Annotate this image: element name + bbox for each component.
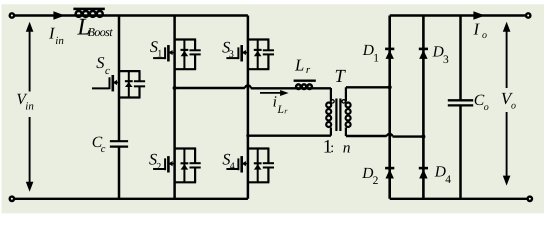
wire secondary bottom to rectifier [346, 135, 387, 137]
wire top rail (primary) [12, 14, 248, 16]
svg-text:D: D [432, 44, 444, 61]
input current arrow Iin [53, 11, 65, 20]
diode D4 [419, 167, 428, 170]
S1 cell bottom wire [175, 68, 197, 70]
S3 gate bar [237, 47, 239, 59]
S4 source-body arrow [242, 163, 248, 165]
svg-text:D: D [361, 165, 373, 182]
Vo up arrow [506, 31, 508, 88]
svg-text:c: c [101, 144, 106, 155]
S3 parallel capacitor [267, 40, 269, 51]
wire Sc/Cc branch vertical [118, 16, 121, 142]
wire rectifier branch A [388, 16, 391, 199]
Sc parallel capacitor [138, 71, 140, 81]
node rectifier branch B mid junction [421, 135, 425, 139]
wire bridge leg A [173, 16, 176, 199]
svg-text:in: in [25, 100, 34, 112]
current arrow iLr [260, 92, 281, 94]
S4 cell top wire [248, 147, 270, 149]
transformer T secondary winding [346, 103, 351, 108]
svg-text:1: 1 [373, 53, 379, 65]
S4 gate lead [226, 168, 238, 170]
Vin down arrow [29, 117, 31, 183]
transformer T primary lead [330, 88, 332, 102]
wire bottom rail (secondary) [390, 198, 530, 200]
transformer T primary winding [326, 103, 331, 108]
input terminal bottom-left [10, 197, 14, 201]
S2 gate lead [153, 168, 165, 170]
node leg B crossing bump [245, 85, 251, 88]
svg-text:i: i [273, 93, 277, 110]
svg-text:4: 4 [230, 161, 235, 172]
transformer T core [335, 99, 337, 132]
node leg B mid junction [246, 134, 249, 137]
S2 parallel capacitor [194, 149, 196, 164]
S3 cell top wire [248, 38, 270, 40]
node leg A mid junction [173, 86, 177, 90]
wire leg B mid to primary bottom [248, 134, 331, 136]
S3 channel [240, 45, 243, 61]
Sc cell bottom wire [119, 96, 141, 98]
S3 cell bottom wire [248, 68, 270, 70]
S4 parallel capacitor [267, 149, 269, 164]
wire bridge mid A to Lr [175, 87, 245, 89]
Sc source-body arrow [113, 82, 119, 84]
svg-text:L: L [294, 55, 304, 74]
svg-text:T: T [335, 67, 347, 87]
svg-text:o: o [511, 100, 516, 111]
diode D2 [385, 167, 394, 170]
svg-text:2: 2 [156, 162, 161, 173]
wire top rail (secondary) [390, 14, 529, 16]
S1 cell top wire [175, 38, 197, 40]
Vo down arrow [506, 112, 508, 176]
svg-text:o: o [482, 30, 487, 41]
svg-text::: : [330, 141, 334, 156]
output terminal bottom-right [528, 197, 532, 201]
S1 gate bar [164, 47, 166, 59]
S4 channel [240, 156, 243, 172]
S3 body diode [257, 40, 259, 70]
Sc body diode [128, 71, 130, 97]
diode D3 [419, 48, 428, 51]
inductor LBoost core bar [73, 8, 104, 11]
Sc gate bar [109, 77, 111, 89]
svg-text:Boost: Boost [88, 25, 114, 39]
Sc gate lead [92, 87, 110, 89]
svg-text:D: D [362, 42, 374, 59]
node secondary bottom crossing bump [387, 134, 393, 137]
Sc channel [112, 75, 115, 91]
S2 source-body arrow [168, 163, 174, 165]
S2 gate bar [164, 158, 166, 170]
S1 gate lead [153, 57, 165, 59]
Sc cell top wire [119, 70, 141, 72]
wire bottom rail (primary) [12, 198, 248, 200]
diode D1 [385, 48, 394, 51]
svg-text:2: 2 [373, 175, 379, 187]
svg-text:n: n [343, 140, 351, 157]
S2 cell bottom wire [175, 181, 197, 183]
S2 cell top wire [175, 147, 197, 149]
S2 channel [167, 156, 170, 172]
wire secondary top to rectifier [346, 86, 390, 88]
svg-text:3: 3 [443, 54, 449, 66]
S3 gate lead [226, 57, 238, 59]
svg-text:S: S [96, 53, 104, 72]
input terminal top-left [10, 13, 14, 17]
capacitor Co leads [459, 16, 462, 101]
svg-text:in: in [55, 35, 64, 47]
capacitor Co [448, 99, 473, 101]
transformer T secondary leads [345, 87, 347, 101]
svg-text:L: L [277, 104, 284, 116]
S3 source-body arrow [242, 52, 248, 54]
Vin up arrow [29, 31, 31, 92]
svg-text:D: D [434, 163, 446, 180]
inductor Lr humps [296, 84, 301, 89]
svg-text:r: r [306, 64, 311, 76]
svg-text:4: 4 [445, 174, 451, 186]
transformer T secondary polarity dot [342, 100, 345, 103]
wire rectifier branch B [422, 16, 425, 199]
S1 body diode [183, 40, 185, 70]
output terminal top-right [526, 13, 530, 17]
svg-text:1: 1 [157, 49, 162, 60]
S1 channel [167, 45, 170, 61]
S4 gate bar [237, 158, 239, 170]
S1 parallel capacitor [194, 40, 196, 51]
S4 cell bottom wire [248, 181, 270, 183]
S2 body diode [183, 149, 185, 183]
capacitor Cc [110, 140, 128, 142]
svg-text:3: 3 [229, 49, 234, 60]
wire bridge leg B [247, 16, 250, 199]
output current arrow Io [473, 11, 485, 20]
transformer T primary polarity dot [331, 100, 334, 103]
S1 source-body arrow [168, 52, 174, 54]
node secondary top junction [388, 85, 392, 89]
svg-text:c: c [105, 65, 110, 77]
inductor Lr core bar [294, 80, 316, 82]
inductor LBoost humps [76, 11, 82, 17]
svg-text:o: o [484, 102, 489, 113]
S4 body diode [257, 149, 259, 183]
